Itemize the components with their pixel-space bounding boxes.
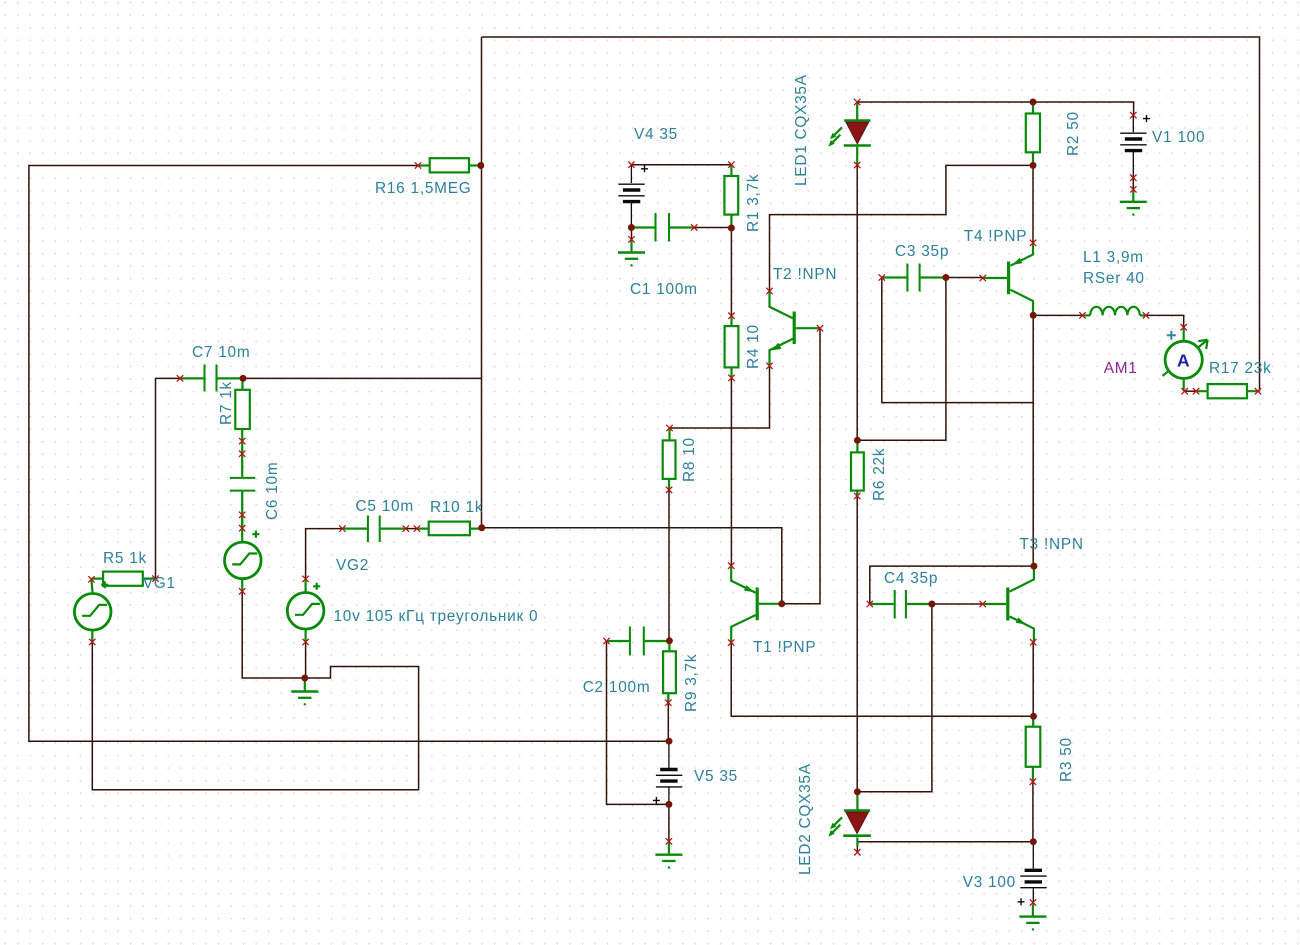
node R2 bottom — [1030, 162, 1037, 169]
svg-text:AM1: AM1 — [1104, 360, 1138, 377]
wire C7 junction to vertical rail — [243, 377, 482, 379]
svg-text:V1 100: V1 100 — [1152, 129, 1205, 146]
node C2/R8/R9 — [666, 637, 673, 644]
svg-text:T2 !NPN: T2 !NPN — [773, 266, 837, 283]
battery V5 — [653, 741, 682, 804]
wire T4 feedback loop to C3 left — [882, 278, 1033, 403]
svg-text:R2 50: R2 50 — [1065, 111, 1082, 156]
wire LED2 bottom pin stub — [856, 846, 858, 852]
svg-text:LED2 CQX35A: LED2 CQX35A — [797, 763, 814, 875]
wire C2 left down to V5 bottom junction — [607, 641, 670, 804]
svg-text:R16 1,5MEG: R16 1,5MEG — [375, 180, 471, 197]
capacitor C1 — [631, 213, 694, 242]
svg-text:R1 3,7k: R1 3,7k — [745, 174, 762, 232]
capacitor C5 — [342, 516, 405, 543]
node C4 right — [928, 601, 935, 608]
wire C4 right junction down to LED2 top junction — [857, 604, 932, 792]
wire R1 bottom to R4 top — [730, 228, 732, 316]
wire C3 right junction down to R6 top junction — [857, 278, 946, 441]
wire V5 bottom junction to ground pin — [668, 804, 670, 841]
node R1/C1 — [728, 225, 735, 232]
resistor R2 — [1026, 102, 1040, 166]
resistor R3 — [1026, 716, 1041, 781]
svg-text:R17 23k: R17 23k — [1209, 360, 1272, 377]
wire LED1 bottom to R6 top junction — [856, 165, 858, 440]
wire R8 bottom to C2 junction — [668, 490, 670, 641]
wire C4 right junction to T3 base — [932, 603, 983, 605]
svg-text:C3 35p: C3 35p — [895, 243, 949, 260]
svg-text:R8 10: R8 10 — [681, 437, 698, 482]
wire T3 emitter down to R3 top junction — [1032, 642, 1034, 716]
svg-text:V3 100: V3 100 — [963, 874, 1016, 891]
wire V4 below junction to ground pin — [631, 228, 633, 240]
wire R4 bottom to T1 collector — [730, 378, 732, 566]
wire T2 base down to T1 base junction — [782, 328, 820, 604]
svg-text:VG2: VG2 — [336, 557, 369, 574]
battery V3 — [1018, 842, 1047, 906]
svg-text:C5 10m: C5 10m — [356, 498, 414, 515]
resistor R8 — [663, 428, 676, 490]
ammeter AM1 — [1163, 327, 1208, 391]
svg-text:T3 !NPN: T3 !NPN — [1020, 536, 1084, 553]
source VG1 — [74, 579, 111, 642]
svg-text:R5 1k: R5 1k — [103, 550, 147, 567]
svg-text:R7 1k: R7 1k — [218, 381, 235, 425]
wire V1 bottom to ground pin — [1132, 178, 1134, 190]
capacitor C4 — [870, 590, 932, 619]
svg-text:R6 22k: R6 22k — [871, 448, 888, 501]
wire C1 right to R1 bottom junction — [694, 227, 731, 229]
transistor T4 PNP — [983, 243, 1033, 315]
node T3 collector — [1030, 563, 1037, 570]
svg-text:R3 50: R3 50 — [1058, 737, 1075, 782]
svg-text:LED1 CQX35A: LED1 CQX35A — [793, 74, 810, 186]
svg-text:T1 !PNP: T1 !PNP — [753, 639, 816, 656]
svg-text:R4 10: R4 10 — [745, 324, 762, 369]
node V3 top — [1030, 838, 1037, 845]
source VG2 — [287, 579, 324, 642]
inductor L1 — [1083, 307, 1146, 316]
node T4 collector — [1030, 312, 1037, 319]
svg-text:R9 3,7k: R9 3,7k — [683, 654, 700, 712]
node R9/V5 — [666, 738, 673, 745]
wire T2 emitter to R8 top — [670, 366, 770, 428]
wire vertical R16-junction to R10-junction — [481, 37, 483, 528]
ground below V4 — [618, 239, 645, 266]
svg-text:RSer 40: RSer 40 — [1083, 270, 1145, 287]
ground below V5 — [655, 841, 682, 868]
transistor T2 NPN mirrored — [770, 291, 821, 366]
node LED2 top — [854, 788, 861, 795]
svg-text:C2 100m: C2 100m — [583, 679, 651, 696]
wire C5 right to R10 left — [406, 528, 417, 530]
svg-text:L1 3,9m: L1 3,9m — [1083, 249, 1144, 266]
node R10 right — [478, 524, 485, 531]
capacitor C7 — [180, 365, 243, 392]
svg-text:10v 105 кГц треугольник 0: 10v 105 кГц треугольник 0 — [334, 608, 539, 625]
svg-text:C7 10m: C7 10m — [192, 344, 250, 361]
resistor R5 — [91, 572, 155, 586]
wire LED1 top to R2 top junction to V1 plus — [857, 102, 1133, 115]
wire R10 right junction to T1 base junction — [482, 528, 782, 604]
source VG2a (C6 source) — [225, 515, 262, 592]
resistor R16 — [418, 158, 481, 172]
resistor R10 — [417, 522, 482, 536]
svg-text:V4 35: V4 35 — [634, 126, 678, 143]
resistor R1 — [724, 165, 738, 228]
wire R6 bottom to LED2 top junction — [856, 496, 858, 792]
battery V4 — [618, 165, 648, 228]
resistor R4 — [725, 316, 739, 378]
wire R2 bottom junction to T4 emitter — [1032, 165, 1034, 243]
wire LED2 cathode to V3 top junction — [857, 841, 1033, 843]
wire T3 collector junction to C4 left — [870, 566, 1034, 604]
svg-text:C6 10m: C6 10m — [264, 462, 281, 520]
wire top rail from R16/C7 net down right side to R17 — [482, 37, 1260, 391]
svg-text:R10 1k: R10 1k — [430, 499, 483, 516]
wire V4 plus to R1 top — [631, 164, 731, 166]
node R16 right — [477, 162, 484, 169]
resistor R9 — [663, 641, 676, 703]
wire R3 bottom to V3 top junction — [1032, 782, 1034, 842]
svg-text:T4 !PNP: T4 !PNP — [964, 228, 1027, 245]
wire AM1 bottom to R17 left — [1184, 390, 1196, 392]
capacitor C6 — [230, 441, 256, 528]
wire VG1 bottom loop to ground node — [92, 642, 418, 790]
transistor T3 NPN — [983, 566, 1034, 642]
node C3 right — [942, 274, 949, 281]
wire VG2 top to C5 left — [306, 529, 343, 579]
pin marks — [415, 162, 421, 168]
capacitor C2 — [607, 627, 670, 656]
LED LED1 — [828, 103, 871, 165]
wire C3 right junction to T4 base — [946, 277, 983, 279]
wire VG2 bottom to ground node — [305, 642, 307, 678]
wire C7 left lead to R5 right pin — [156, 378, 181, 578]
svg-text:VG1: VG1 — [143, 575, 176, 592]
svg-text:C1 100m: C1 100m — [630, 281, 698, 298]
LED LED2 — [828, 792, 871, 847]
svg-text:V5 35: V5 35 — [694, 768, 738, 785]
node V4/C1 — [628, 224, 635, 231]
node R3 top — [1030, 713, 1037, 720]
transistor T1 PNP mirrored — [731, 566, 782, 643]
node R10/T1 base — [778, 600, 785, 607]
wire source2 bottom to ground node — [242, 591, 305, 678]
capacitor C3 — [882, 264, 946, 292]
node LED1/R2/V1 — [1030, 99, 1037, 106]
wire L1 right to AM1 top — [1146, 315, 1184, 327]
wire R9 bottom to V5 top junction — [667, 703, 669, 742]
ground below VG sources — [291, 678, 318, 706]
resistor R17 — [1196, 384, 1259, 398]
node C7 right — [240, 375, 247, 382]
node V5 bottom — [665, 801, 672, 808]
ground below V3 — [1019, 905, 1046, 931]
node R6 top — [854, 437, 861, 444]
wire T2 collector up and over to R2 bottom junction — [770, 165, 1034, 291]
svg-text:A: A — [1177, 351, 1190, 371]
svg-text:C4 35p: C4 35p — [884, 570, 938, 587]
wire T1 emitter to R3 top junction — [731, 643, 1033, 717]
wire T4 collector junction to L1 left — [1033, 314, 1082, 316]
node VG ground — [301, 675, 308, 682]
wire T4 collector junction down to T3 collector junction — [1032, 315, 1034, 566]
battery V1 — [1120, 115, 1150, 178]
resistor R6 — [851, 440, 864, 496]
wire R16 left to far-left rail down to V5 node — [29, 166, 669, 742]
ground below V1 — [1120, 189, 1147, 215]
resistor R7 — [235, 378, 250, 441]
